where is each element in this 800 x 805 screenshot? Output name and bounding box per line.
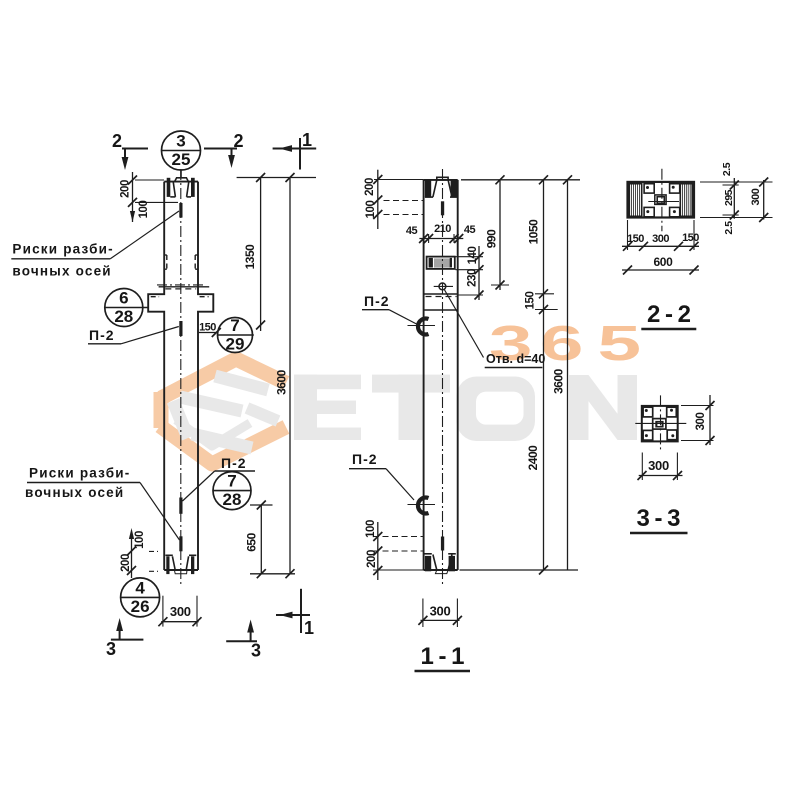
svg-text:1 - 1: 1 - 1 [420, 643, 464, 670]
svg-text:2.5: 2.5 [723, 221, 735, 235]
svg-text:300: 300 [750, 188, 762, 205]
svg-text:5: 5 [597, 316, 641, 371]
svg-text:300: 300 [652, 233, 669, 245]
svg-text:100: 100 [365, 520, 377, 538]
svg-text:200: 200 [366, 550, 378, 568]
svg-text:200: 200 [120, 554, 132, 572]
svg-text:1350: 1350 [243, 244, 257, 270]
svg-text:вочных осей: вочных осей [25, 485, 124, 500]
svg-text:150: 150 [682, 232, 699, 244]
svg-text:28: 28 [223, 490, 242, 509]
svg-text:3600: 3600 [274, 369, 288, 395]
svg-text:150: 150 [627, 233, 644, 245]
svg-text:2400: 2400 [526, 445, 540, 471]
svg-text:26: 26 [131, 597, 150, 616]
svg-text:295: 295 [723, 189, 735, 206]
svg-text:3 - 3: 3 - 3 [636, 505, 680, 532]
svg-text:200: 200 [364, 178, 376, 196]
svg-text:7: 7 [230, 316, 239, 335]
svg-text:650: 650 [244, 532, 258, 551]
svg-text:3: 3 [106, 639, 116, 659]
svg-text:3: 3 [251, 641, 261, 661]
svg-text:П-2: П-2 [89, 327, 115, 343]
svg-text:Риски разби-: Риски разби- [12, 242, 113, 257]
svg-text:3600: 3600 [551, 368, 565, 394]
svg-text:300: 300 [648, 458, 669, 473]
svg-text:990: 990 [484, 229, 498, 248]
svg-text:1: 1 [304, 618, 314, 638]
svg-text:150: 150 [524, 292, 536, 310]
svg-text:4: 4 [135, 578, 145, 597]
svg-text:300: 300 [695, 413, 707, 431]
svg-text:300: 300 [430, 604, 451, 619]
svg-text:600: 600 [653, 255, 673, 269]
svg-text:29: 29 [226, 335, 245, 354]
svg-text:1050: 1050 [526, 219, 540, 245]
svg-text:1: 1 [302, 130, 312, 150]
svg-text:3: 3 [176, 132, 185, 151]
svg-text:2 - 2: 2 - 2 [647, 301, 691, 328]
svg-text:140: 140 [467, 247, 479, 265]
svg-text:7: 7 [227, 472, 236, 491]
svg-text:Риски разби-: Риски разби- [29, 466, 130, 481]
svg-text:45: 45 [464, 224, 476, 236]
svg-text:210: 210 [434, 223, 451, 235]
svg-text:вочных осей: вочных осей [12, 264, 111, 279]
svg-text:300: 300 [170, 604, 191, 619]
svg-text:28: 28 [114, 307, 133, 326]
svg-text:П-2: П-2 [364, 293, 390, 309]
svg-text:200: 200 [119, 180, 131, 198]
svg-text:100: 100 [365, 201, 377, 219]
svg-text:6: 6 [540, 316, 584, 371]
svg-text:П-2: П-2 [352, 451, 378, 467]
svg-text:100: 100 [138, 201, 150, 219]
svg-text:150: 150 [199, 322, 216, 334]
svg-text:100: 100 [134, 531, 146, 549]
svg-text:2: 2 [112, 131, 122, 151]
svg-text:230: 230 [466, 269, 478, 287]
svg-text:П-2: П-2 [221, 455, 247, 471]
svg-text:2.5: 2.5 [721, 162, 733, 176]
svg-text:6: 6 [119, 289, 128, 308]
svg-text:Отв. d=40: Отв. d=40 [486, 352, 545, 366]
svg-text:45: 45 [406, 225, 418, 237]
svg-text:25: 25 [172, 150, 191, 169]
